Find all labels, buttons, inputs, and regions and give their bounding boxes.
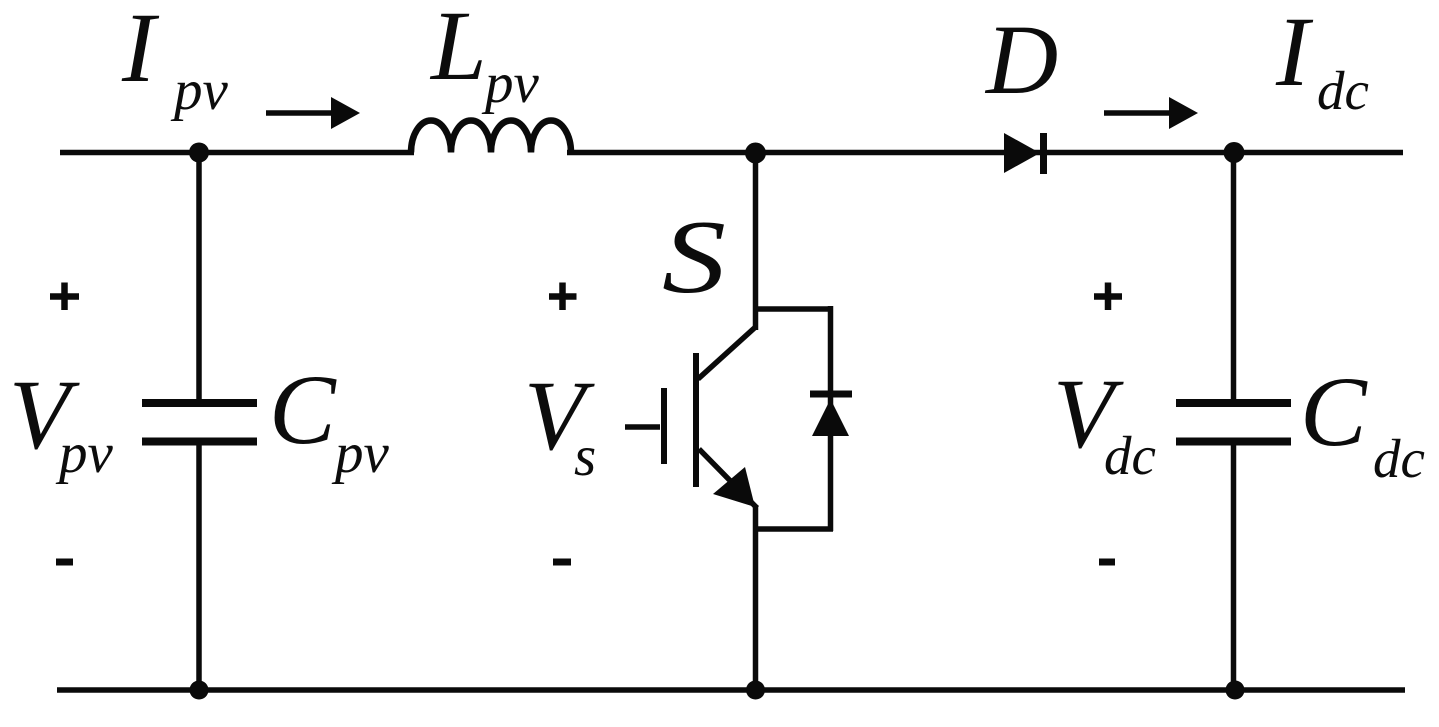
node junction top-right xyxy=(1224,142,1245,163)
gate bar xyxy=(661,388,667,464)
minus sign V_dc xyxy=(1099,559,1115,566)
svg-text:dc: dc xyxy=(1373,428,1425,489)
capacitor C_dc xyxy=(1176,403,1291,442)
emitter diagonal xyxy=(699,449,757,508)
minus sign V_s xyxy=(553,559,571,566)
wire left branch upper xyxy=(196,152,202,404)
transistor S (IGBT) xyxy=(625,327,757,508)
svg-text:s: s xyxy=(574,425,596,488)
wire middle branch lower xyxy=(753,505,759,690)
body bar xyxy=(693,353,699,487)
node junction top-middle xyxy=(745,143,766,164)
wire bottom branch from antiparallel diode xyxy=(755,526,833,532)
emitter arrowhead xyxy=(713,467,755,507)
svg-text:D: D xyxy=(984,4,1058,115)
node junction bottom-middle xyxy=(746,681,765,700)
wire left branch lower xyxy=(196,441,202,690)
antiparallel diode (body diode) xyxy=(810,394,852,436)
current arrow I_pv xyxy=(266,97,360,129)
node junction bottom-right xyxy=(1226,681,1245,700)
minus sign V_pv xyxy=(56,559,73,566)
plus sign V_dc xyxy=(1094,283,1122,311)
gate lead xyxy=(625,424,660,430)
svg-text:C: C xyxy=(1300,356,1368,467)
svg-text:pv: pv xyxy=(170,59,229,122)
svg-text:L: L xyxy=(429,0,487,101)
node junction bottom-left xyxy=(190,681,209,700)
plus sign V_s xyxy=(549,283,577,311)
inductor L_pv xyxy=(411,121,571,153)
svg-text:pv: pv xyxy=(55,422,114,485)
svg-text:I: I xyxy=(121,0,160,103)
svg-text:dc: dc xyxy=(1104,425,1156,486)
wire top rail xyxy=(60,150,414,156)
wire antiparallel diode branch vertical xyxy=(828,306,834,531)
svg-text:C: C xyxy=(269,354,337,465)
svg-text:dc: dc xyxy=(1317,60,1369,121)
svg-text:pv: pv xyxy=(481,52,540,115)
svg-text:I: I xyxy=(1275,0,1314,107)
collector diagonal xyxy=(698,327,756,379)
wire middle branch upper xyxy=(753,152,759,330)
wire right branch upper xyxy=(1231,152,1237,403)
wire right branch lower xyxy=(1231,441,1237,690)
capacitor C_pv xyxy=(142,403,257,442)
plus sign V_pv xyxy=(50,283,79,311)
svg-text:S: S xyxy=(662,198,726,315)
current arrow I_dc xyxy=(1104,97,1198,129)
wire top branch to antiparallel diode xyxy=(755,306,833,312)
svg-text:pv: pv xyxy=(331,422,390,485)
wire bottom rail xyxy=(57,687,1405,693)
diode D xyxy=(1004,133,1044,174)
node junction top-left xyxy=(189,143,209,163)
